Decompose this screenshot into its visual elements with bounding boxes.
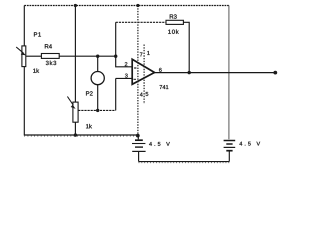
op-amp U1 741 triangle (132, 59, 154, 84)
resistor R4 (41, 54, 59, 59)
label pin 3 (125, 74, 128, 78)
label pin 5 (146, 92, 149, 96)
wire junction down to pin 2 (116, 56, 133, 67)
wire right battery drop from top rail (228, 6, 230, 140)
wire R3 to output node (183, 22, 189, 72)
wire P2 wiper to pin3 net (78, 109, 116, 111)
node feedback/output junction (188, 71, 191, 74)
label R3 (170, 14, 177, 18)
op-amp non-inverting input mark (134, 79, 137, 80)
wire top +4.5V rail (24, 5, 229, 7)
wire pin 3 stub (116, 77, 133, 79)
wire pin 1 / pin 5 stub line (143, 45, 145, 105)
wire bottom 0V rail (139, 161, 230, 163)
wire pin 7 / pin 4 supply line (137, 6, 139, 136)
wire output line (155, 72, 276, 74)
label 1k (P2) (86, 124, 92, 128)
wire P1 top (23, 6, 25, 46)
node battery negative rail junction (136, 134, 140, 138)
label 4.5 V left (149, 142, 170, 146)
node R4/R3/pin2 junction (114, 55, 117, 58)
resistor R3 (166, 20, 183, 24)
label 10k (168, 29, 178, 33)
meter M1 circle (91, 72, 104, 85)
node pin7 rail junction (136, 4, 139, 7)
wire P1 bottom (23, 67, 25, 136)
wire feedback horizontal to R3 (116, 21, 166, 23)
battery BT1 left 4.5V (132, 136, 146, 162)
label pin 6 (159, 68, 162, 72)
label 1k (P1) (33, 68, 39, 72)
label P1 (34, 32, 41, 36)
potentiometer P1 (16, 46, 26, 67)
wire pin 3 vertical down (115, 78, 117, 110)
wire P2 bottom (74, 122, 76, 135)
label pin 2 (125, 62, 128, 66)
node meter bottom junction (96, 109, 99, 112)
label pin 7 (140, 53, 143, 57)
node P2 negative rail junction (74, 133, 77, 136)
label 3k3 (46, 61, 56, 65)
wire P1 wiper to R4 (26, 55, 42, 57)
wire negative rail bottom-left (24, 134, 138, 136)
label P2 (86, 91, 93, 95)
label pin 4 (140, 93, 143, 97)
battery BT2 right 4.5V (224, 141, 236, 162)
node meter top junction (96, 55, 99, 58)
node P2 rail junction (74, 4, 77, 7)
label 4.5 V right (239, 142, 260, 146)
label pin 1 (147, 51, 149, 55)
wire P2 top vertical from rail (74, 6, 76, 103)
output terminal dot (273, 71, 277, 75)
potentiometer P2 (67, 97, 78, 123)
label R4 (45, 44, 52, 48)
label 741 (160, 85, 169, 89)
op-amp inverting input mark (134, 67, 136, 68)
wire feedback vertical up (115, 22, 117, 56)
wire meter bottom vertical (97, 85, 99, 111)
wire meter top vertical (97, 56, 99, 71)
wire R4 to summing junction (59, 55, 115, 57)
